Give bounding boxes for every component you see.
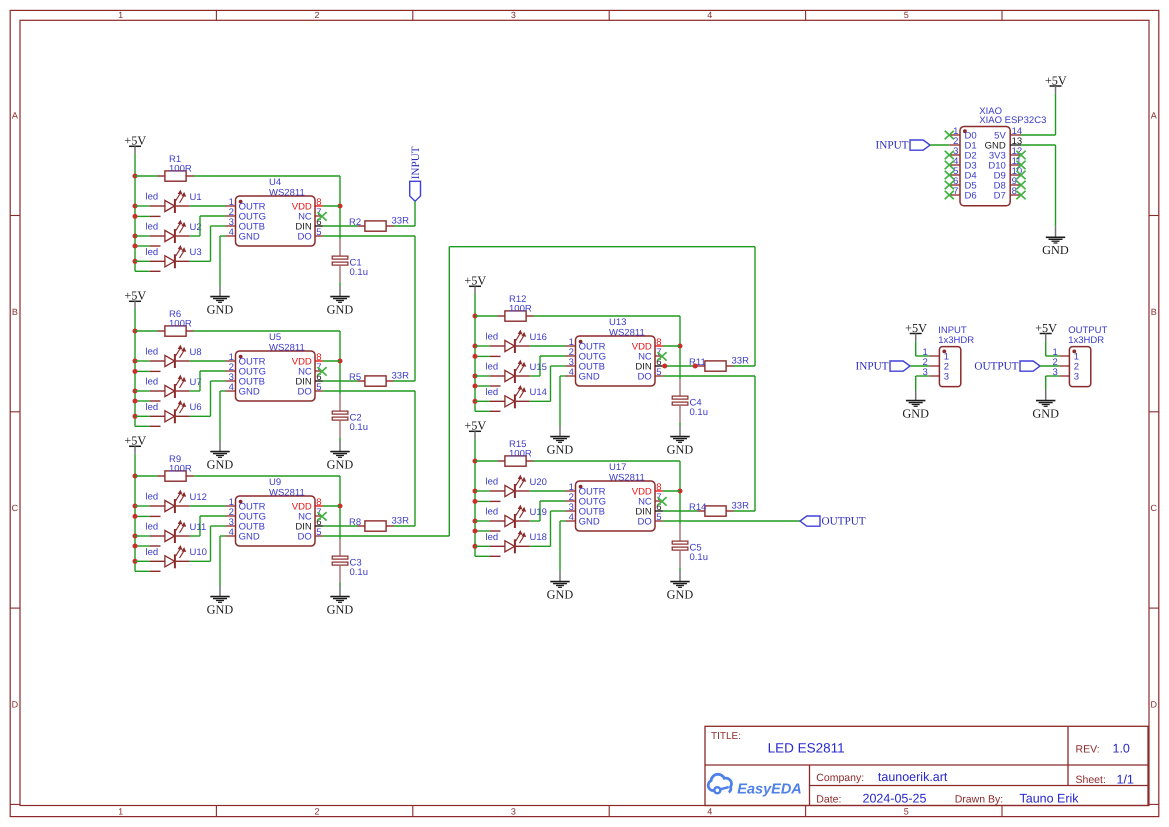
svg-text:A: A [1151,110,1157,120]
svg-text:U8: U8 [190,347,202,358]
svg-text:U16: U16 [530,332,547,343]
svg-text:R5: R5 [349,372,361,383]
svg-text:2024-05-25: 2024-05-25 [863,791,927,805]
svg-text:U14: U14 [530,387,547,398]
svg-text:4: 4 [569,367,574,378]
svg-text:GND: GND [667,587,694,601]
svg-text:GND: GND [1042,243,1069,257]
svg-text:U3: U3 [190,247,202,258]
svg-text:100R: 100R [169,164,192,175]
svg-text:Company:: Company: [816,772,864,784]
svg-text:B: B [12,307,18,317]
svg-text:GND: GND [239,231,260,242]
svg-text:1/1: 1/1 [1117,773,1134,787]
svg-text:0.1u: 0.1u [350,422,369,433]
svg-text:led: led [486,362,499,373]
svg-text:33R: 33R [732,356,750,367]
svg-text:3: 3 [511,10,516,20]
svg-text:GND: GND [207,457,234,471]
svg-text:led: led [146,247,159,258]
svg-text:D: D [12,699,19,709]
svg-text:LED ES2811: LED ES2811 [768,740,845,755]
svg-text:led: led [486,477,499,488]
svg-text:led: led [146,492,159,503]
svg-text:DO: DO [638,371,652,382]
svg-text:5: 5 [904,10,909,20]
svg-text:1x3HDR: 1x3HDR [938,335,974,346]
svg-text:4: 4 [229,382,234,393]
svg-text:DO: DO [298,386,312,397]
svg-text:5: 5 [316,227,321,238]
svg-text:100R: 100R [509,304,532,315]
svg-text:GND: GND [207,602,234,616]
svg-text:5: 5 [316,527,321,538]
svg-text:100R: 100R [169,319,192,330]
svg-text:5: 5 [316,382,321,393]
svg-text:100R: 100R [509,449,532,460]
svg-text:33R: 33R [732,501,750,512]
svg-text:INPUT: INPUT [876,140,909,152]
svg-text:DO: DO [298,531,312,542]
svg-text:0.1u: 0.1u [690,407,709,418]
svg-text:U10: U10 [190,547,207,558]
svg-text:led: led [146,402,159,413]
svg-text:4: 4 [569,512,574,523]
svg-text:U20: U20 [530,477,547,488]
svg-text:U13: U13 [609,317,626,328]
svg-text:4: 4 [229,227,234,238]
svg-text:U18: U18 [530,532,547,543]
svg-text:1: 1 [118,10,123,20]
svg-text:2: 2 [314,806,319,816]
svg-text:U5: U5 [269,332,281,343]
svg-text:33R: 33R [392,371,410,382]
svg-text:led: led [146,347,159,358]
svg-text:U9: U9 [269,477,281,488]
svg-text:WS2811: WS2811 [269,488,305,499]
svg-text:led: led [146,222,159,233]
svg-text:D6: D6 [965,190,977,201]
svg-text:C: C [1151,503,1158,513]
svg-text:0.1u: 0.1u [350,267,369,278]
svg-text:WS2811: WS2811 [269,188,305,199]
svg-text:DO: DO [638,516,652,527]
svg-text:0.1u: 0.1u [690,552,709,563]
svg-text:WS2811: WS2811 [609,473,645,484]
svg-text:INPUT: INPUT [856,361,889,373]
svg-text:GND: GND [239,531,260,542]
svg-text:GND: GND [902,406,929,420]
svg-text:4: 4 [707,806,712,816]
svg-text:B: B [1151,307,1157,317]
svg-text:R8: R8 [349,517,361,528]
svg-text:Tauno Erik: Tauno Erik [1020,792,1080,806]
svg-text:TITLE:: TITLE: [711,731,741,742]
svg-text:0.1u: 0.1u [350,567,369,578]
svg-text:GND: GND [547,587,574,601]
svg-text:led: led [486,387,499,398]
svg-text:3: 3 [1074,371,1079,382]
svg-text:1x3HDR: 1x3HDR [1068,335,1104,346]
svg-text:U15: U15 [530,362,547,373]
svg-text:OUTPUT: OUTPUT [974,361,1018,373]
svg-text:EasyEDA: EasyEDA [737,781,801,797]
svg-text:C: C [12,503,19,513]
svg-text:GND: GND [327,302,354,316]
svg-text:5: 5 [656,367,661,378]
svg-text:Sheet:: Sheet: [1076,774,1106,786]
svg-text:1.0: 1.0 [1113,742,1130,756]
svg-text:U19: U19 [530,507,547,518]
svg-text:100R: 100R [169,464,192,475]
svg-text:WS2811: WS2811 [269,343,305,354]
svg-text:U6: U6 [190,402,202,413]
svg-text:GND: GND [667,442,694,456]
svg-text:GND: GND [327,457,354,471]
svg-text:XIAO ESP32C3: XIAO ESP32C3 [979,115,1046,126]
svg-text:taunoerik.art: taunoerik.art [878,770,948,784]
svg-text:D: D [1151,699,1158,709]
svg-text:4: 4 [707,10,712,20]
svg-text:U12: U12 [190,492,207,503]
svg-text:led: led [146,377,159,388]
svg-text:GND: GND [579,371,600,382]
svg-text:GND: GND [327,602,354,616]
svg-text:led: led [486,332,499,343]
svg-text:led: led [486,532,499,543]
svg-text:33R: 33R [392,516,410,527]
svg-text:5: 5 [904,806,909,816]
svg-text:led: led [146,522,159,533]
svg-text:U1: U1 [190,192,202,203]
svg-text:3: 3 [511,806,516,816]
svg-text:led: led [146,192,159,203]
svg-text:GND: GND [547,442,574,456]
svg-text:2: 2 [314,10,319,20]
svg-text:A: A [12,110,18,120]
svg-text:GND: GND [1032,406,1059,420]
svg-text:led: led [486,507,499,518]
svg-text:R2: R2 [349,217,361,228]
svg-text:Date:: Date: [816,793,841,805]
svg-text:3: 3 [944,371,949,382]
svg-text:R14: R14 [689,502,706,513]
svg-text:U4: U4 [269,177,281,188]
svg-text:DO: DO [298,231,312,242]
svg-text:REV:: REV: [1076,743,1100,755]
svg-text:WS2811: WS2811 [609,328,645,339]
svg-text:led: led [146,547,159,558]
svg-text:OUTPUT: OUTPUT [822,516,866,528]
svg-text:Drawn By:: Drawn By: [955,793,1003,805]
svg-text:1: 1 [118,806,123,816]
svg-text:4: 4 [229,527,234,538]
svg-text:GND: GND [207,302,234,316]
svg-text:GND: GND [239,386,260,397]
svg-text:U17: U17 [609,462,626,473]
svg-text:GND: GND [579,516,600,527]
svg-text:INPUT: INPUT [410,146,422,179]
svg-text:U11: U11 [190,522,207,533]
svg-text:33R: 33R [392,216,410,227]
svg-text:5: 5 [656,512,661,523]
svg-text:D7: D7 [994,190,1006,201]
